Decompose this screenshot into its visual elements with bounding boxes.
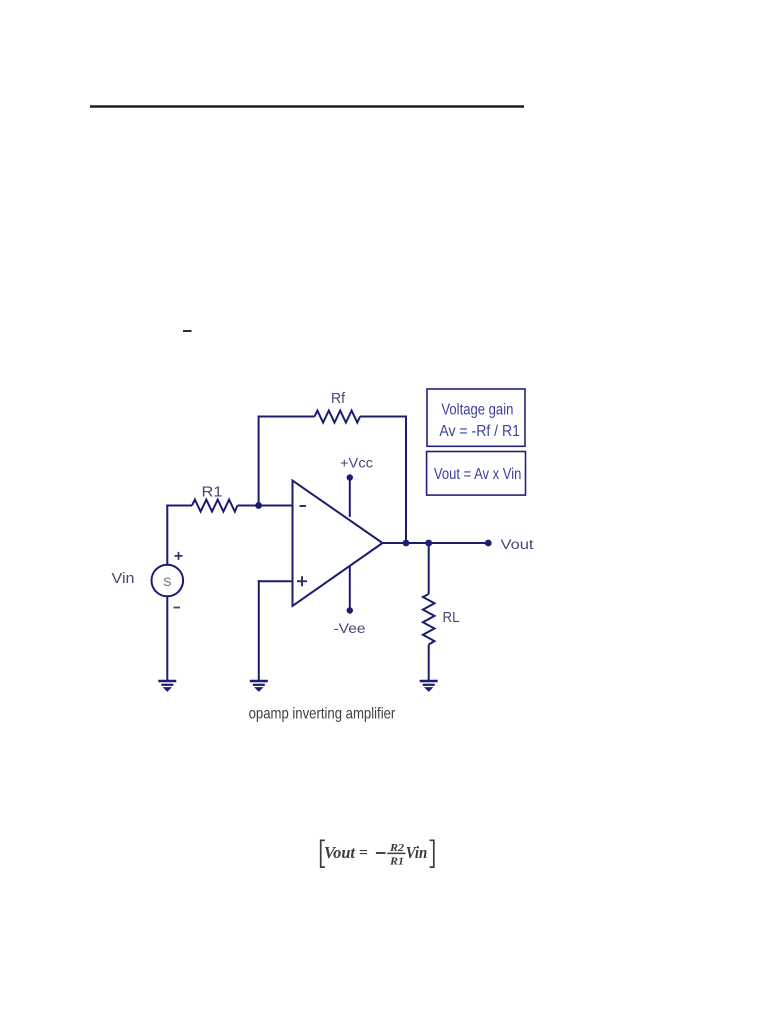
node junction inverting input [255, 502, 262, 509]
formula bracket left [321, 840, 325, 867]
svg-text:Vout: Vout [501, 537, 534, 552]
dash mark [183, 330, 192, 332]
svg-text:Vout = Av x Vin: Vout = Av x Vin [434, 466, 522, 483]
formula fraction bar [387, 852, 405, 854]
wire Rf left [258, 416, 315, 418]
annotation box voltage gain [427, 389, 525, 446]
formula minus [376, 852, 386, 854]
resistor Rf [315, 411, 361, 423]
wire Vin to R1 [166, 505, 192, 507]
wire -Vee [349, 566, 351, 611]
svg-text:+Vcc: +Vcc [340, 456, 373, 471]
wire noninverting input to ground [258, 580, 260, 680]
source Vin circle [152, 565, 184, 597]
svg-text:R1: R1 [389, 856, 404, 867]
svg-text:Vin: Vin [112, 571, 135, 587]
wire R1 to op-amp [238, 505, 293, 507]
svg-text:R1: R1 [202, 485, 223, 501]
ground noninverting [250, 681, 268, 691]
wire Vin bottom [166, 597, 168, 681]
node -Vee terminal dot [347, 607, 353, 613]
resistor RL [423, 594, 435, 645]
svg-text:=: = [359, 845, 368, 862]
wire +Vcc [349, 478, 351, 518]
node Vout terminal dot [485, 540, 492, 547]
horizontal rule [90, 105, 524, 108]
ground Vin [158, 681, 176, 691]
wire Vin top [166, 505, 168, 565]
svg-text:Vout: Vout [324, 843, 356, 862]
wire noninverting input horizontal [258, 580, 293, 582]
plus input symbol [297, 576, 307, 586]
svg-text:Rf: Rf [331, 391, 346, 407]
node +Vcc terminal dot [347, 474, 353, 480]
svg-text:Av = -Rf / R1: Av = -Rf / R1 [439, 423, 520, 440]
node feedback junction [403, 540, 410, 547]
op-amp U1 triangle [293, 481, 383, 607]
wire feedback left vertical [258, 417, 260, 506]
svg-text:opamp inverting amplifier: opamp inverting amplifier [249, 706, 396, 723]
wire output [383, 542, 489, 544]
resistor R1 [192, 500, 238, 512]
wire Rf right [360, 416, 407, 418]
svg-text:RL: RL [443, 610, 460, 626]
formula bracket right [430, 840, 434, 867]
svg-text:-Vee: -Vee [334, 621, 366, 636]
wire RL top [428, 543, 430, 594]
minus input symbol [300, 505, 307, 507]
wire RL bottom [428, 645, 430, 681]
svg-text:R2: R2 [389, 843, 404, 854]
node RL junction [425, 540, 432, 547]
wire feedback right vertical [405, 416, 407, 544]
svg-text:S: S [163, 575, 171, 589]
source plus polarity [175, 552, 183, 560]
annotation box vout [427, 452, 526, 496]
source minus polarity [174, 607, 181, 609]
svg-text:Voltage gain: Voltage gain [441, 402, 513, 419]
svg-text:Vin: Vin [406, 843, 428, 862]
ground RL [420, 681, 438, 691]
